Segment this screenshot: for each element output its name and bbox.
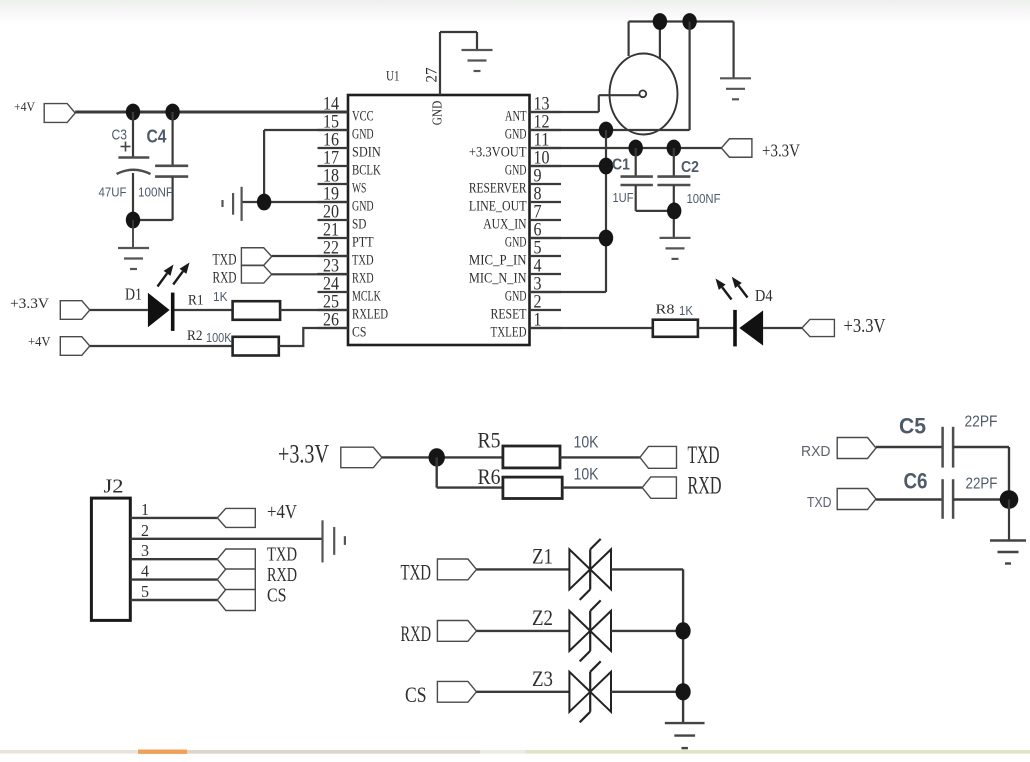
- wire Z2 to ground bus: [611, 630, 683, 632]
- svg-text:C1: C1: [612, 157, 630, 174]
- svg-text:RXD: RXD: [688, 471, 722, 500]
- svg-text:2: 2: [141, 521, 149, 540]
- J2 pin 5: [130, 582, 217, 601]
- resistor R1 (1K): [188, 289, 280, 320]
- svg-text:CS: CS: [405, 682, 427, 707]
- pin 7 (AUX_IN): [483, 203, 561, 233]
- svg-text:PTT: PTT: [352, 235, 374, 251]
- wire antenna top bus: [629, 22, 734, 60]
- junction pin6/bus: [599, 230, 613, 247]
- svg-text:TXLED: TXLED: [491, 325, 527, 341]
- TVS diode Z1: [532, 539, 611, 600]
- wire R2 to pin 26: [279, 328, 348, 346]
- pin 13 (ANT): [505, 95, 561, 125]
- resistor R2 (100K): [187, 328, 279, 355]
- svg-text:18: 18: [323, 167, 339, 187]
- wire pin15 GND to ground node: [264, 130, 348, 202]
- svg-text:RXLED: RXLED: [352, 307, 388, 323]
- svg-text:RXD: RXD: [401, 621, 432, 646]
- svg-text:GND: GND: [431, 101, 446, 126]
- pin 26 (CS): [318, 311, 367, 341]
- power flag +4V (top left): [14, 100, 75, 122]
- net flag RXD (to C5): [801, 438, 876, 461]
- junction Z2/bus: [676, 622, 691, 639]
- junction pin12/bus: [599, 122, 613, 139]
- pin 10 (GND): [505, 149, 561, 179]
- wire RXD flag to Z2: [477, 630, 570, 632]
- wire RXD to C5: [876, 446, 943, 448]
- pin 17 (BCLK): [318, 149, 381, 179]
- wire pin6 GND: [530, 237, 607, 239]
- svg-text:TXD: TXD: [267, 545, 297, 566]
- wire +4V to R2: [90, 345, 233, 347]
- wire pin19 GND: [242, 201, 348, 203]
- pin 3 (GND): [505, 275, 561, 305]
- svg-text:+4V: +4V: [28, 335, 51, 350]
- svg-text:4: 4: [534, 257, 542, 277]
- svg-text:17: 17: [323, 149, 339, 169]
- pin 19 (GND): [318, 185, 374, 215]
- J2 pin 2: [130, 521, 322, 540]
- capacitor C1 (1UF): [612, 148, 674, 211]
- svg-text:10K: 10K: [574, 465, 599, 483]
- svg-text:R6: R6: [478, 464, 501, 489]
- pin 21 (PTT): [318, 221, 374, 251]
- svg-text:WS: WS: [352, 181, 366, 197]
- svg-text:BCLK: BCLK: [352, 163, 381, 179]
- antenna connector (coax): [610, 54, 678, 135]
- svg-text:R5: R5: [478, 427, 501, 452]
- pin 14 (VCC): [318, 95, 374, 125]
- svg-text:GND: GND: [505, 289, 527, 305]
- ground (left of pin 19, pointing left): [223, 187, 242, 221]
- svg-text:MCLK: MCLK: [352, 289, 381, 305]
- pin 27 (GND, top): [424, 32, 478, 125]
- svg-text:LINE_OUT: LINE_OUT: [469, 199, 527, 215]
- J2 pin 3: [130, 541, 217, 560]
- net flag CS (to Z3): [405, 681, 477, 706]
- net flag RXD (J2 pin 4): [217, 565, 297, 590]
- svg-text:GND: GND: [352, 127, 374, 143]
- wire R1 to pin 25: [280, 309, 348, 311]
- svg-text:TXD: TXD: [807, 495, 832, 511]
- junction antenna bus right: [682, 13, 696, 30]
- capacitor C2 (100NF): [657, 148, 720, 238]
- svg-text:+3.3V: +3.3V: [844, 316, 886, 337]
- ground (pin 27): [462, 50, 493, 71]
- svg-text:RESET: RESET: [491, 307, 527, 323]
- power flag +3.3V (right of C2): [721, 139, 800, 161]
- net flag RXD (to Z2): [401, 621, 477, 646]
- net flag RXD (middle): [642, 471, 721, 500]
- ground (below Z3): [665, 723, 705, 748]
- svg-text:+3.3V: +3.3V: [762, 141, 800, 161]
- resistor R5 (10K): [478, 427, 599, 468]
- svg-text:R2: R2: [187, 328, 203, 344]
- power flag +4V (left, R2 row): [28, 335, 90, 355]
- junction R5/R6: [429, 448, 445, 466]
- svg-text:+3.3VOUT: +3.3VOUT: [469, 145, 527, 161]
- svg-text:VCC: VCC: [352, 109, 374, 125]
- svg-text:Z3: Z3: [532, 666, 553, 691]
- ground (antenna, top right): [720, 78, 751, 99]
- connector J2 body: [91, 477, 130, 621]
- svg-text:GND: GND: [505, 127, 527, 143]
- svg-text:8: 8: [534, 185, 542, 205]
- svg-text:MIC_N_IN: MIC_N_IN: [469, 271, 527, 287]
- capacitor C6 (22PF): [904, 469, 998, 519]
- net flag +4V (J2 pin 1): [217, 502, 297, 527]
- svg-text:C4: C4: [147, 127, 167, 147]
- ground (below C3): [118, 220, 149, 269]
- svg-text:GND: GND: [505, 235, 527, 251]
- svg-text:CS: CS: [352, 325, 366, 341]
- svg-text:1: 1: [141, 500, 149, 519]
- svg-text:RXD: RXD: [801, 444, 831, 460]
- wire TXD flag to Z1: [477, 568, 570, 570]
- wire pin10 GND: [530, 165, 607, 167]
- junction C1/C2 ground node: [667, 203, 681, 220]
- wire right GND bus vertical: [605, 130, 607, 292]
- junction rail/C2: [667, 140, 681, 157]
- IC U1 body: [348, 95, 530, 345]
- junction rail/C1: [629, 140, 643, 157]
- svg-text:22PF: 22PF: [966, 476, 998, 493]
- wire Z1 to ground bus: [611, 568, 683, 570]
- svg-text:AUX_IN: AUX_IN: [483, 217, 526, 233]
- svg-text:3: 3: [141, 541, 149, 560]
- svg-text:5: 5: [534, 239, 542, 259]
- svg-text:4: 4: [141, 562, 149, 581]
- LED D1: [125, 263, 190, 331]
- net flag TXD (to pin 22): [213, 248, 349, 269]
- junction antenna bus left: [653, 13, 667, 30]
- net flag TXD (to C6): [807, 489, 876, 512]
- svg-text:TXD: TXD: [213, 252, 237, 269]
- wire R6 to RXD flag: [562, 486, 642, 488]
- junction +4V/C4: [165, 104, 179, 121]
- svg-text:10K: 10K: [574, 433, 599, 451]
- resistor R6 (10K): [478, 464, 599, 499]
- J2 pin 1: [130, 500, 217, 519]
- wire pin1 TXLED to R8: [530, 327, 653, 329]
- J2 pin 4: [130, 562, 217, 581]
- svg-text:100NF: 100NF: [138, 185, 173, 200]
- svg-text:RESERVER: RESERVER: [469, 181, 527, 197]
- svg-text:GND: GND: [352, 199, 374, 215]
- svg-text:9: 9: [534, 167, 542, 187]
- wire C6 to ground node: [953, 498, 1009, 500]
- wire R5 to TXD flag: [560, 456, 640, 458]
- svg-text:MIC_P_IN: MIC_P_IN: [469, 253, 527, 269]
- svg-text:5: 5: [141, 582, 149, 601]
- junction pin10/bus: [599, 158, 613, 175]
- power flag +3.3V (right of D4): [802, 316, 886, 337]
- pin 9 (RESERVER): [469, 167, 561, 197]
- wire TXD to C6: [876, 498, 943, 500]
- svg-text:RXD: RXD: [352, 271, 374, 287]
- svg-text:C6: C6: [904, 469, 928, 494]
- net flag RXD (to pin 23): [213, 266, 349, 287]
- svg-text:TXD: TXD: [401, 559, 432, 584]
- TVS diode Z2: [532, 600, 611, 661]
- junction C5/C6 ground: [1000, 490, 1019, 509]
- pin 23 (RXD): [318, 257, 374, 287]
- net flag TXD (J2 pin 3): [217, 545, 297, 570]
- svg-text:RXD: RXD: [213, 270, 237, 287]
- wire Z3 to ground bus: [611, 691, 683, 693]
- svg-text:22PF: 22PF: [965, 414, 998, 431]
- wire antenna bus to pin12 GND: [688, 22, 690, 131]
- power flag +3.3V (middle): [278, 440, 382, 469]
- svg-text:R1: R1: [188, 293, 204, 309]
- wire R8 to D4: [698, 327, 734, 329]
- pin 24 (MCLK): [318, 275, 381, 305]
- net flag TXD (to Z1): [401, 559, 477, 584]
- svg-text:Z2: Z2: [532, 605, 553, 630]
- wire top bus to ground: [732, 22, 734, 79]
- ground (J2 pin 2, pointing right): [323, 520, 345, 562]
- wire pin13 ANT to antenna center: [530, 95, 640, 112]
- resistor R8 (1K): [653, 303, 698, 337]
- pin 20 (SD): [318, 203, 367, 233]
- svg-text:J2: J2: [104, 477, 124, 498]
- svg-text:1K: 1K: [679, 304, 694, 318]
- svg-text:C3: C3: [112, 127, 128, 144]
- svg-text:D1: D1: [125, 285, 142, 304]
- svg-text:+4V: +4V: [267, 502, 297, 523]
- svg-text:SDIN: SDIN: [352, 145, 381, 161]
- junction pin15/pin19 ground: [257, 194, 271, 211]
- wire D1 to R1: [175, 309, 233, 311]
- pin 5 (MIC_P_IN): [469, 239, 561, 269]
- svg-text:D4: D4: [755, 286, 773, 305]
- svg-text:TXD: TXD: [688, 440, 720, 469]
- svg-text:100K: 100K: [206, 330, 232, 345]
- TVS diode Z3: [532, 661, 611, 722]
- wire C5 to corner: [953, 447, 1009, 500]
- svg-text:1UF: 1UF: [613, 190, 634, 205]
- svg-text:+3.3V: +3.3V: [10, 296, 49, 312]
- svg-text:+4V: +4V: [14, 100, 35, 114]
- wire D4 to +3.3V flag: [763, 327, 802, 329]
- pin 15 (GND): [318, 113, 374, 143]
- svg-text:2: 2: [534, 293, 542, 313]
- junction Z3/bus: [676, 683, 691, 700]
- svg-text:21: 21: [323, 221, 339, 241]
- svg-text:TXD: TXD: [352, 253, 374, 269]
- capacitor C4 (100NF): [133, 112, 188, 220]
- pin 25 (RXLED): [318, 293, 389, 323]
- wire Z ground bus vertical: [682, 569, 684, 723]
- svg-text:GND: GND: [505, 163, 527, 179]
- svg-text:ANT: ANT: [505, 109, 527, 125]
- svg-text:U1: U1: [386, 69, 400, 85]
- power flag +3.3V (left, D1 row): [10, 296, 90, 319]
- wire CS flag to Z3: [477, 691, 570, 693]
- svg-text:RXD: RXD: [267, 565, 297, 586]
- wire +3.3V to R5/R6 split: [382, 456, 503, 458]
- pin 2 (RESET): [491, 293, 562, 323]
- pin 18 (WS): [318, 167, 367, 197]
- svg-text:16: 16: [323, 131, 339, 151]
- net flag CS (J2 pin 5): [217, 586, 286, 611]
- pin 16 (SDIN): [318, 131, 381, 161]
- wire pin3 GND: [530, 291, 607, 293]
- ground (below C2): [660, 238, 691, 259]
- wire pin11 +3.3VOUT rail: [530, 147, 722, 149]
- junction C3/C4 ground node: [126, 212, 140, 229]
- wire +4V trunk to pin 14: [75, 111, 348, 114]
- svg-text:C5: C5: [899, 414, 926, 439]
- pin 4 (MIC_N_IN): [469, 257, 561, 287]
- svg-text:C2: C2: [681, 159, 699, 176]
- svg-text:Z1: Z1: [532, 544, 553, 569]
- svg-text:24: 24: [323, 275, 339, 295]
- svg-text:100NF: 100NF: [687, 191, 721, 206]
- svg-text:27: 27: [424, 68, 441, 83]
- svg-text:CS: CS: [267, 586, 287, 607]
- svg-text:47UF: 47UF: [99, 185, 127, 200]
- svg-text:7: 7: [534, 203, 542, 223]
- bottom window-edge strip: [0, 750, 1030, 754]
- svg-text:SD: SD: [352, 217, 367, 233]
- svg-text:20: 20: [323, 203, 339, 223]
- capacitor C3 (47UF polarized): [99, 112, 151, 220]
- wire pin12 GND: [530, 129, 690, 131]
- svg-text:1K: 1K: [213, 289, 228, 304]
- pin 8 (LINE_OUT): [469, 185, 561, 215]
- ground (below C5/C6): [990, 500, 1026, 564]
- junction +4V/C3: [126, 104, 140, 121]
- LED D4: [716, 277, 773, 347]
- capacitor C5 (22PF): [899, 414, 998, 468]
- net flag TXD (middle): [640, 440, 720, 469]
- svg-text:R8: R8: [656, 303, 675, 318]
- wire split to R6: [437, 457, 503, 487]
- pin 11 (+3.3VOUT): [469, 131, 561, 161]
- wire +3.3V to D1: [90, 309, 148, 311]
- U1 reference designator: [386, 69, 400, 85]
- pin 22 (TXD): [318, 239, 374, 269]
- svg-text:+3.3V: +3.3V: [278, 440, 329, 469]
- pin 1 (TXLED): [491, 311, 562, 341]
- pin 12 (GND): [505, 113, 561, 143]
- pin 6 (GND): [505, 221, 561, 251]
